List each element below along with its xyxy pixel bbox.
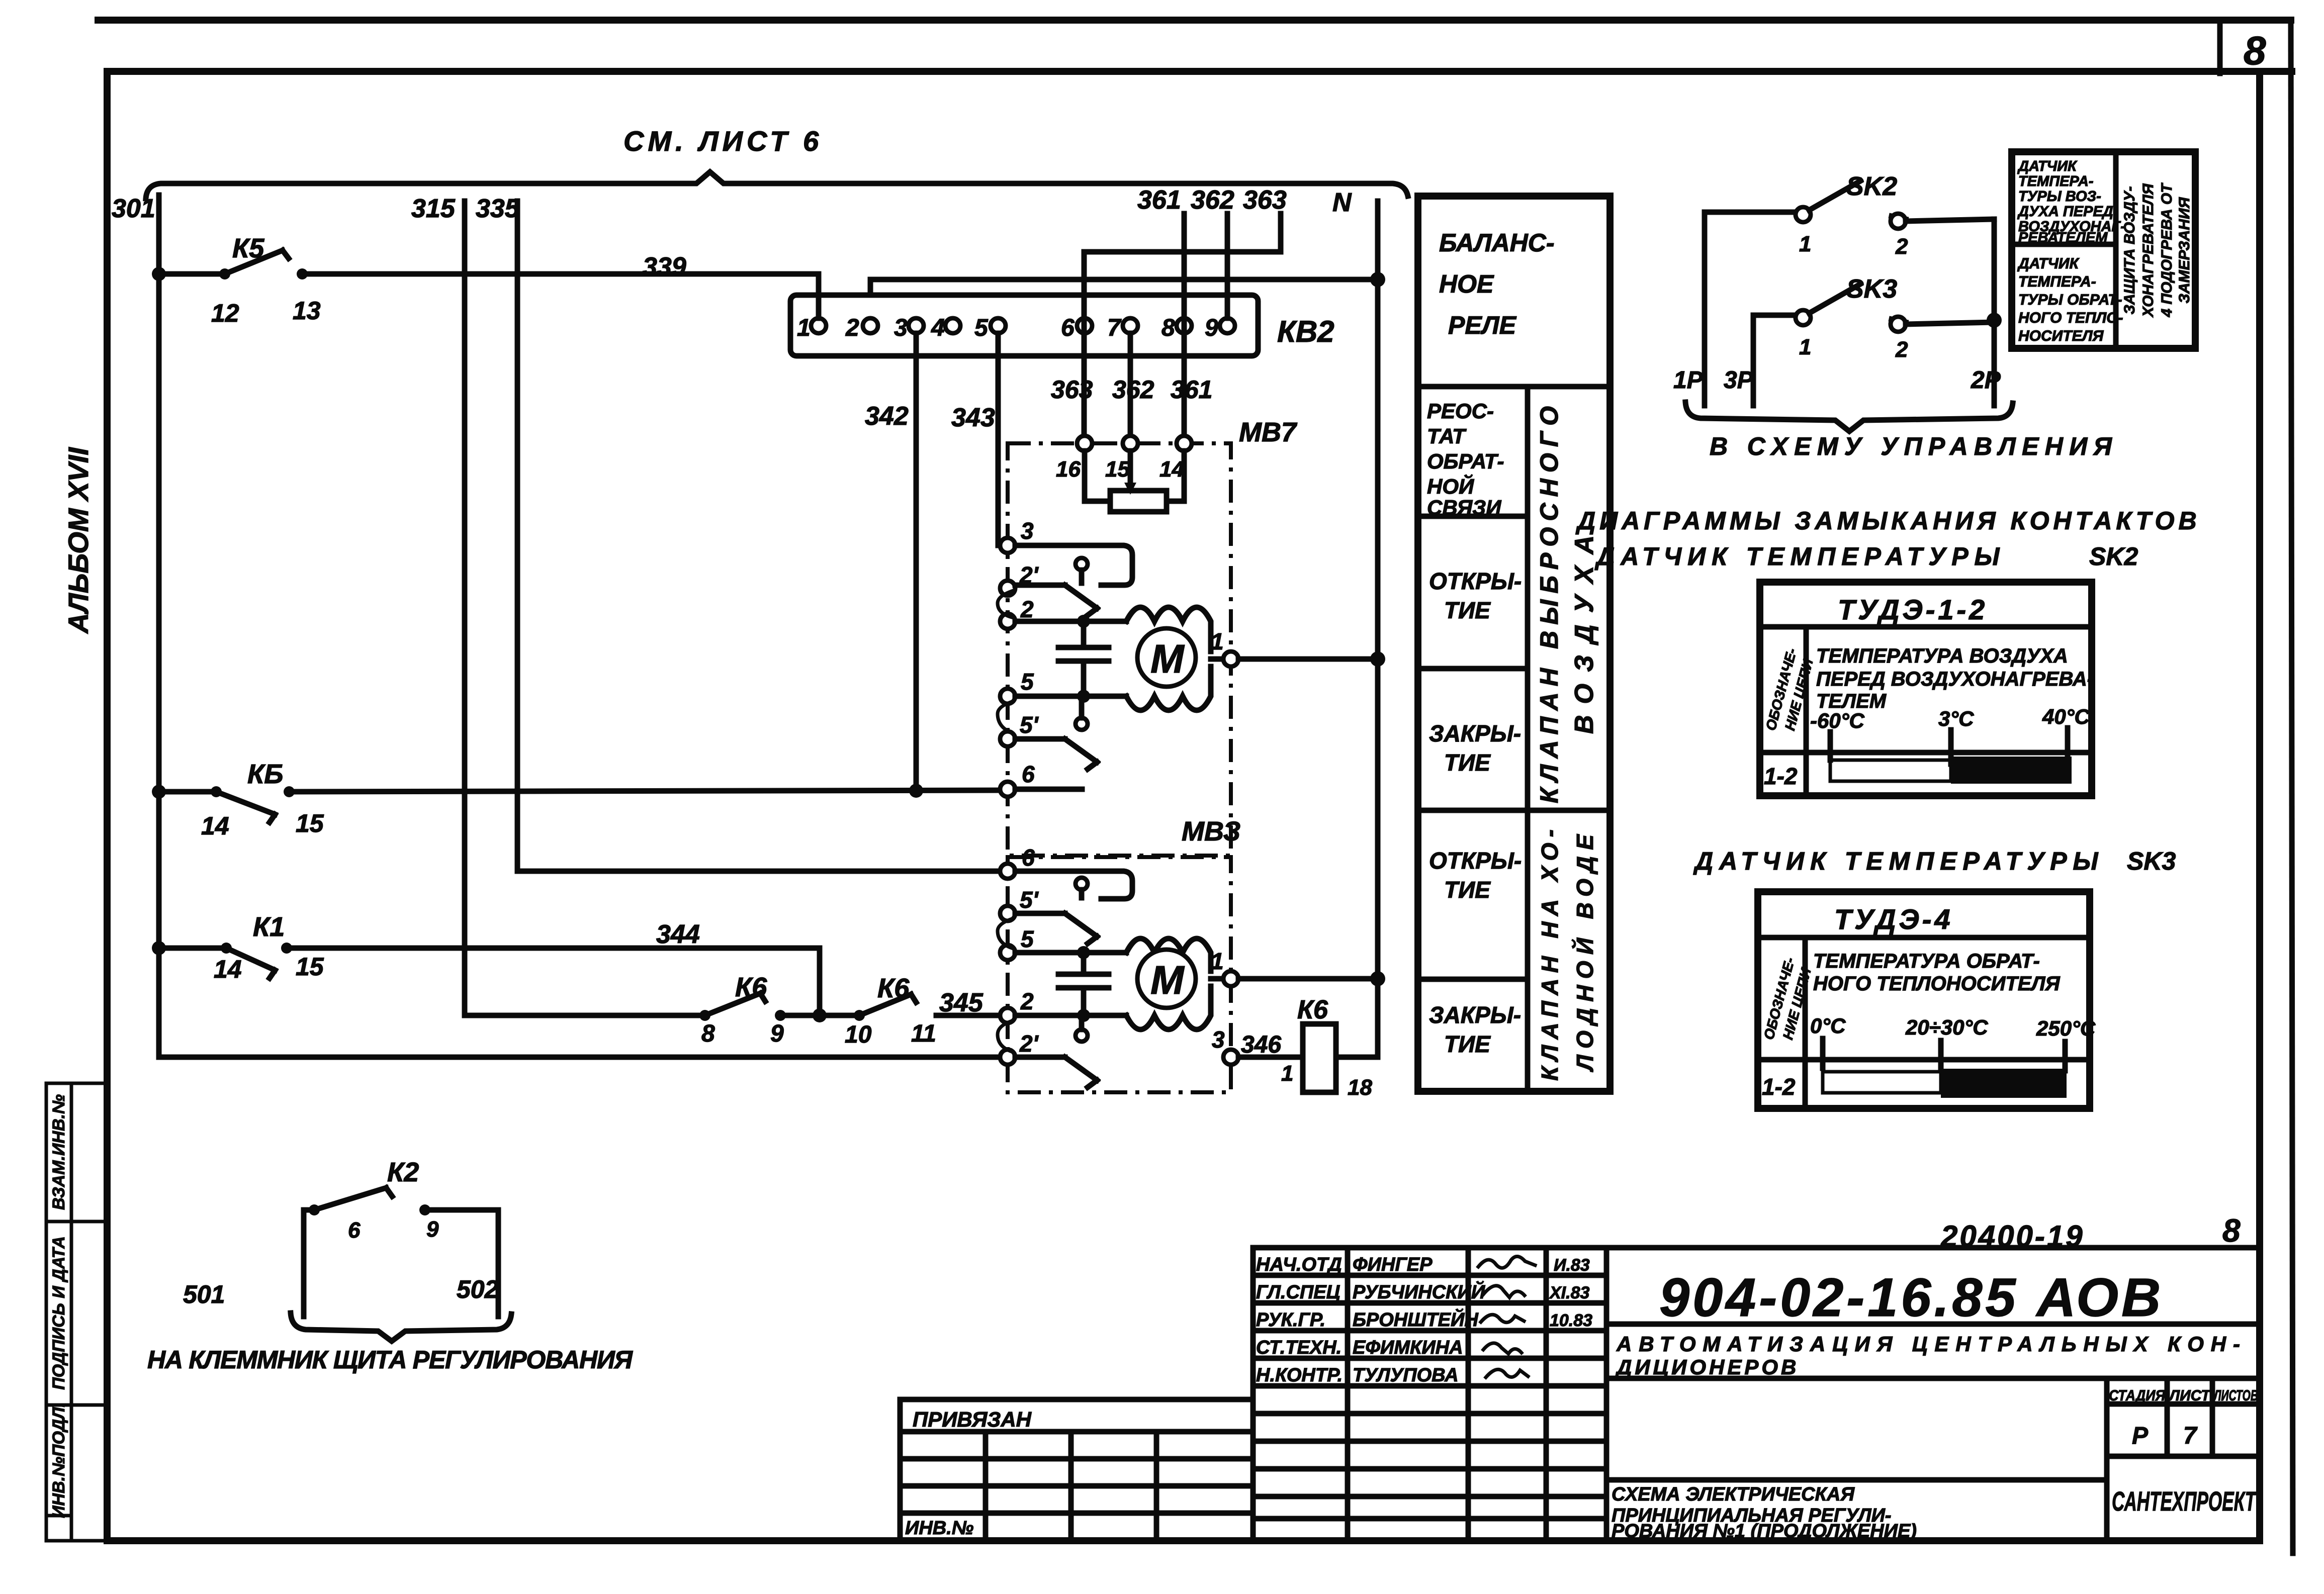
svg-text:15: 15 [1105, 457, 1130, 482]
svg-text:0°С: 0°С [1810, 1014, 1846, 1038]
svg-text:Н.КОНТР.: Н.КОНТР. [1256, 1365, 1343, 1386]
svg-text:2: 2 [845, 315, 859, 341]
svg-text:КБ: КБ [247, 759, 283, 789]
svg-text:8: 8 [1161, 315, 1175, 341]
svg-text:XI.83: XI.83 [1549, 1283, 1589, 1302]
svg-text:N: N [1332, 188, 1352, 217]
svg-text:ПОДПИСЬ И ДАТА: ПОДПИСЬ И ДАТА [49, 1236, 68, 1390]
svg-text:6: 6 [1061, 315, 1075, 341]
svg-text:ТУРЫ ВОЗ-: ТУРЫ ВОЗ- [2018, 189, 2101, 205]
svg-text:ДИЦИОНЕРОВ: ДИЦИОНЕРОВ [1615, 1355, 1799, 1379]
svg-text:1Р: 1Р [1673, 367, 1704, 394]
svg-text:НОГО ТЕПЛО-: НОГО ТЕПЛО- [2018, 310, 2123, 326]
svg-text:-60°С: -60°С [1810, 709, 1864, 732]
svg-text:ТУДЭ-4: ТУДЭ-4 [1834, 903, 1953, 935]
svg-text:11: 11 [911, 1020, 936, 1047]
svg-text:БРОНШТЕЙН: БРОНШТЕЙН [1353, 1308, 1479, 1331]
svg-text:18: 18 [1348, 1075, 1372, 1100]
svg-text:ТИЕ: ТИЕ [1444, 877, 1491, 903]
svg-text:К2: К2 [387, 1157, 419, 1187]
svg-text:ХОНАГРЕВАТЕЛЯ: ХОНАГРЕВАТЕЛЯ [2140, 183, 2157, 318]
svg-text:362: 362 [1112, 376, 1154, 404]
svg-text:10: 10 [845, 1021, 872, 1048]
svg-text:15: 15 [296, 953, 324, 981]
svg-text:СХЕМА ЭЛЕКТРИЧЕСКАЯ: СХЕМА ЭЛЕКТРИЧЕСКАЯ [1612, 1484, 1855, 1505]
svg-text:ТАТ: ТАТ [1427, 424, 1467, 448]
svg-text:ТЕМПЕРАТУРА ВОЗДУХА: ТЕМПЕРАТУРА ВОЗДУХА [1816, 645, 2068, 667]
svg-text:М: М [1150, 636, 1185, 681]
svg-text:6: 6 [1022, 845, 1035, 871]
svg-text:К5: К5 [232, 233, 264, 263]
svg-text:РУК.ГР.: РУК.ГР. [1256, 1309, 1325, 1331]
svg-text:ТУРЫ ОБРАТ-: ТУРЫ ОБРАТ- [2018, 292, 2122, 308]
svg-text:НОЕ: НОЕ [1439, 270, 1494, 298]
svg-text:К6: К6 [1297, 995, 1328, 1024]
svg-text:501: 501 [183, 1280, 225, 1308]
svg-text:14: 14 [214, 955, 242, 983]
svg-text:4: 4 [931, 315, 945, 341]
svg-text:ДУХА ПЕРЕД: ДУХА ПЕРЕД [2017, 204, 2113, 220]
svg-text:8: 8 [2244, 28, 2266, 73]
svg-text:6: 6 [348, 1218, 361, 1243]
svg-text:6: 6 [1022, 761, 1035, 787]
svg-text:10.83: 10.83 [1550, 1311, 1592, 1330]
svg-text:301: 301 [112, 194, 155, 223]
svg-text:ТИЕ: ТИЕ [1444, 749, 1491, 776]
svg-text:МВ7: МВ7 [1239, 417, 1298, 447]
svg-text:ЗАКРЫ-: ЗАКРЫ- [1429, 720, 1521, 746]
svg-text:ПРИВЯЗАН: ПРИВЯЗАН [913, 1408, 1032, 1431]
svg-text:1: 1 [797, 315, 811, 341]
svg-text:SK3: SK3 [2127, 847, 2176, 875]
svg-text:1: 1 [1211, 628, 1224, 654]
svg-text:ЗАЩИТА ВОЗДУ-: ЗАЩИТА ВОЗДУ- [2121, 186, 2138, 315]
svg-text:2: 2 [1895, 234, 1908, 259]
svg-text:ЕФИМКИНА: ЕФИМКИНА [1353, 1337, 1463, 1358]
svg-text:363: 363 [1243, 185, 1287, 215]
svg-text:НАЧ.ОТД: НАЧ.ОТД [1256, 1254, 1342, 1275]
svg-text:ОТКРЫ-: ОТКРЫ- [1429, 568, 1522, 594]
svg-text:3°С: 3°С [1938, 707, 1974, 730]
svg-text:5': 5' [1020, 887, 1039, 913]
svg-text:3Р: 3Р [1724, 367, 1754, 394]
svg-text:1: 1 [1211, 948, 1224, 974]
svg-text:ДАТЧИК: ДАТЧИК [2017, 255, 2080, 272]
svg-text:ОБРАТ-: ОБРАТ- [1427, 449, 1504, 473]
svg-text:ТЕМПЕРА-: ТЕМПЕРА- [2018, 173, 2094, 190]
svg-text:344: 344 [656, 920, 700, 949]
svg-text:343: 343 [951, 403, 995, 432]
svg-text:8: 8 [2222, 1212, 2241, 1249]
svg-text:5: 5 [1021, 669, 1034, 695]
svg-text:15: 15 [296, 809, 324, 837]
svg-text:И.83: И.83 [1554, 1256, 1590, 1275]
svg-text:250°С: 250°С [2036, 1016, 2096, 1040]
svg-text:АЛЬБОМ XVII: АЛЬБОМ XVII [62, 447, 94, 634]
svg-text:ТУДЭ-1-2: ТУДЭ-1-2 [1838, 594, 1988, 625]
svg-text:363: 363 [1051, 376, 1093, 404]
svg-text:ТИЕ: ТИЕ [1444, 1031, 1491, 1057]
svg-text:ТЕМПЕРАТУРА ОБРАТ-: ТЕМПЕРАТУРА ОБРАТ- [1813, 950, 2040, 972]
svg-text:20÷30°С: 20÷30°С [1905, 1015, 1988, 1039]
svg-text:346: 346 [1241, 1032, 1281, 1058]
svg-text:2': 2' [1019, 1030, 1039, 1057]
svg-text:362: 362 [1191, 185, 1234, 215]
svg-text:НОГО ТЕПЛОНОСИТЕЛЯ: НОГО ТЕПЛОНОСИТЕЛЯ [1813, 973, 2060, 995]
svg-text:РЕОС-: РЕОС- [1427, 399, 1494, 423]
svg-text:345: 345 [939, 988, 984, 1017]
svg-text:3: 3 [894, 315, 908, 341]
svg-text:БАЛАНС-: БАЛАНС- [1439, 229, 1555, 257]
svg-text:2: 2 [1020, 988, 1034, 1014]
svg-text:К6: К6 [877, 973, 910, 1003]
svg-text:ИНВ.№ПОДЛ.: ИНВ.№ПОДЛ. [49, 1402, 68, 1518]
svg-text:361: 361 [1137, 185, 1181, 215]
svg-text:1: 1 [1799, 335, 1811, 359]
svg-text:335: 335 [476, 194, 520, 223]
svg-text:ЗАКРЫ-: ЗАКРЫ- [1429, 1002, 1521, 1028]
svg-text:РОВАНИЯ №1 (ПРОДОЛЖЕНИЕ): РОВАНИЯ №1 (ПРОДОЛЖЕНИЕ) [1612, 1521, 1917, 1542]
svg-text:5: 5 [974, 315, 989, 341]
svg-text:7: 7 [2183, 1423, 2198, 1449]
svg-text:ПЕРЕД ВОЗДУХОНАГРЕВА-: ПЕРЕД ВОЗДУХОНАГРЕВА- [1816, 668, 2094, 690]
svg-text:40°С: 40°С [2042, 705, 2090, 728]
svg-text:КЛАПАН ВЫБРОСНОГО: КЛАПАН ВЫБРОСНОГО [1535, 406, 1563, 803]
svg-text:502: 502 [457, 1275, 499, 1303]
svg-text:РЕВАТЕЛЕМ: РЕВАТЕЛЕМ [2018, 230, 2108, 246]
svg-text:ФИНГЕР: ФИНГЕР [1353, 1254, 1433, 1275]
svg-text:ЛОДНОЙ ВОДЕ: ЛОДНОЙ ВОДЕ [1572, 834, 1598, 1072]
svg-text:5': 5' [1020, 712, 1039, 738]
svg-text:ДАТЧИК ТЕМПЕРАТУРЫ: ДАТЧИК ТЕМПЕРАТУРЫ [1594, 542, 2006, 571]
svg-text:НА КЛЕММНИК ЩИТА РЕГУЛИРОВАНИЯ: НА КЛЕММНИК ЩИТА РЕГУЛИРОВАНИЯ [147, 1346, 634, 1374]
svg-text:ЗАМЕРЗАНИЯ: ЗАМЕРЗАНИЯ [2176, 197, 2193, 303]
svg-text:5: 5 [1021, 926, 1034, 952]
svg-text:РЕЛЕ: РЕЛЕ [1448, 311, 1517, 339]
svg-text:ВЗАМ.ИНВ.№: ВЗАМ.ИНВ.№ [49, 1094, 68, 1210]
svg-text:1: 1 [1281, 1061, 1293, 1086]
svg-text:ТИЕ: ТИЕ [1444, 597, 1491, 623]
svg-text:2: 2 [1020, 596, 1034, 622]
svg-text:1-2: 1-2 [1762, 1074, 1796, 1100]
svg-text:904-02-16.85 АОВ: 904-02-16.85 АОВ [1659, 1267, 2164, 1328]
svg-text:ТЕМПЕРА-: ТЕМПЕРА- [2018, 273, 2096, 290]
svg-text:3: 3 [1212, 1026, 1225, 1053]
svg-text:ДИАГРАММЫ ЗАМЫКАНИЯ КОНТАКТОВ: ДИАГРАММЫ ЗАМЫКАНИЯ КОНТАКТОВ [1575, 507, 2201, 535]
svg-text:ДАТЧИК ТЕМПЕРАТУРЫ: ДАТЧИК ТЕМПЕРАТУРЫ [1693, 847, 2104, 875]
svg-text:2: 2 [1895, 337, 1908, 362]
svg-text:КВ2: КВ2 [1277, 315, 1334, 348]
svg-text:SK2: SK2 [1846, 172, 1897, 201]
svg-text:СМ. ЛИСТ 6: СМ. ЛИСТ 6 [623, 125, 823, 157]
svg-text:7: 7 [1107, 315, 1122, 341]
svg-text:Р: Р [2132, 1423, 2149, 1449]
svg-text:14: 14 [1159, 457, 1184, 482]
svg-text:9: 9 [770, 1020, 784, 1047]
svg-text:ИНВ.№: ИНВ.№ [905, 1518, 973, 1539]
svg-text:339: 339 [643, 252, 686, 282]
svg-text:М: М [1150, 958, 1185, 1002]
svg-text:13: 13 [293, 297, 321, 325]
svg-text:361: 361 [1171, 376, 1212, 404]
svg-text:315: 315 [411, 194, 456, 223]
svg-text:СВЯЗИ: СВЯЗИ [1427, 496, 1501, 519]
svg-text:РУБЧИНСКИЙ: РУБЧИНСКИЙ [1353, 1280, 1485, 1303]
svg-text:ТУЛУПОВА: ТУЛУПОВА [1353, 1365, 1459, 1386]
svg-text:4 ПОДОГРЕВА ОТ: 4 ПОДОГРЕВА ОТ [2159, 182, 2175, 318]
svg-text:12: 12 [211, 299, 239, 327]
svg-text:14: 14 [201, 812, 229, 840]
svg-text:1-2: 1-2 [1764, 763, 1798, 789]
svg-text:9: 9 [1205, 315, 1218, 341]
svg-text:К1: К1 [253, 912, 285, 942]
svg-text:САНТЕХПРОЕКТ: САНТЕХПРОЕКТ [2112, 1486, 2257, 1517]
svg-text:SK3: SK3 [1846, 274, 1897, 304]
svg-text:СТ.ТЕХН.: СТ.ТЕХН. [1256, 1337, 1342, 1358]
svg-text:1: 1 [1799, 232, 1811, 256]
svg-text:16: 16 [1056, 457, 1081, 482]
svg-text:НОЙ: НОЙ [1427, 474, 1474, 498]
svg-text:К6: К6 [735, 972, 767, 1002]
svg-text:ГЛ.СПЕЦ: ГЛ.СПЕЦ [1256, 1282, 1340, 1303]
svg-text:SK2: SK2 [2089, 542, 2138, 571]
svg-text:342: 342 [865, 402, 909, 431]
svg-text:МВЗ: МВЗ [1182, 816, 1240, 847]
svg-text:ОТКРЫ-: ОТКРЫ- [1429, 848, 1522, 874]
svg-text:8: 8 [701, 1020, 715, 1047]
svg-text:ДАТЧИК: ДАТЧИК [2017, 158, 2078, 174]
svg-text:2Р: 2Р [1971, 367, 2001, 394]
svg-text:НОСИТЕЛЯ: НОСИТЕЛЯ [2018, 328, 2104, 344]
svg-text:9: 9 [426, 1217, 439, 1242]
svg-text:3: 3 [1021, 518, 1034, 544]
